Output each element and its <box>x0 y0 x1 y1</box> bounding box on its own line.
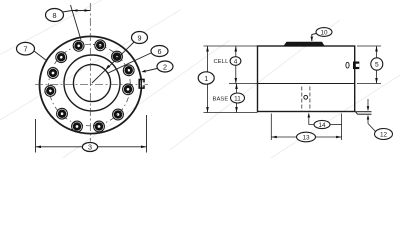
right extension line mid <box>357 83 381 85</box>
bolt hole at 315deg <box>113 109 124 120</box>
balloon 10 with leader to boss <box>311 28 333 42</box>
bottom diameter dimension extension line right <box>146 115 148 153</box>
svg-text:1: 1 <box>204 74 208 83</box>
balloon 8 <box>46 9 73 22</box>
svg-text:4: 4 <box>234 58 238 65</box>
dimension 14 leader with up arrow <box>308 113 315 125</box>
balloon 5 <box>371 58 383 70</box>
flange outer circle <box>40 36 142 133</box>
bolt hole at 105deg <box>73 40 84 51</box>
tab thickness dimension arrows <box>367 99 370 124</box>
bolt circle centerline <box>49 44 131 126</box>
svg-text:3: 3 <box>88 143 92 152</box>
bolt hole at 195deg <box>45 86 56 97</box>
bolt hole at 45deg <box>112 51 123 62</box>
right cell dimension line <box>375 46 378 84</box>
mid extension line left side <box>229 83 258 85</box>
balloon 7 <box>17 42 47 60</box>
bolt hole at 75deg <box>95 40 106 51</box>
svg-text:6: 6 <box>158 47 162 56</box>
svg-text:9: 9 <box>138 33 142 42</box>
top boss plate <box>284 42 325 46</box>
side port ellipse <box>346 62 349 68</box>
bolt hole at 135deg <box>56 52 67 63</box>
svg-text:10: 10 <box>320 29 328 36</box>
side port on right edge <box>353 62 359 70</box>
bottom extension line left side <box>204 112 258 114</box>
bottom thin tab on side view <box>356 112 372 115</box>
bolt hole at 15deg <box>123 65 134 76</box>
cell height dimension line <box>235 46 238 84</box>
bolt hole at 345deg <box>123 84 134 95</box>
balloon 6 <box>109 46 169 73</box>
svg-text:CELL: CELL <box>214 59 230 65</box>
svg-text:7: 7 <box>24 45 28 54</box>
bore inner circle <box>73 64 110 101</box>
dimension 13 line <box>271 136 341 139</box>
right extension line top <box>357 45 381 47</box>
balloon 11 <box>231 93 245 103</box>
side view body outline <box>258 46 355 112</box>
hidden hole dashed line right <box>309 87 311 112</box>
svg-text:8: 8 <box>53 11 57 20</box>
base height dimension line <box>235 84 238 113</box>
bore outer circle <box>64 55 120 111</box>
angular dimension line for balloon 8 <box>72 9 90 11</box>
balloon 14 <box>314 120 342 128</box>
bolt hole at 225deg <box>57 108 68 119</box>
cell/base split line <box>258 83 355 85</box>
bolt hole at 165deg <box>48 68 59 79</box>
balloon 13 <box>297 132 316 142</box>
balloon 4 <box>230 57 241 66</box>
svg-text:BASE: BASE <box>213 97 229 103</box>
overall height dimension line <box>206 46 209 113</box>
bottom diameter dimension extension line left <box>35 119 37 153</box>
balloon 3 <box>82 143 97 152</box>
small hole circle in side view <box>304 95 308 99</box>
hidden hole dashed line left <box>301 87 303 112</box>
svg-text:14: 14 <box>318 122 326 129</box>
balloon 1 <box>198 72 214 84</box>
bottom diameter dimension line <box>36 146 147 149</box>
top extension line left side <box>204 45 258 47</box>
svg-text:11: 11 <box>234 95 241 102</box>
balloon 12 with leader <box>368 124 393 140</box>
balloon 2 <box>141 61 173 72</box>
svg-text:5: 5 <box>375 62 379 69</box>
horizontal centerline <box>35 83 149 85</box>
angled extension line through 105deg hole <box>71 5 82 40</box>
svg-text:2: 2 <box>163 62 167 71</box>
bottom extension line left for dim 13 <box>270 114 272 141</box>
svg-text:12: 12 <box>380 131 388 138</box>
svg-text:13: 13 <box>302 134 310 141</box>
bolt hole at 285deg <box>94 121 105 132</box>
vertical centerline <box>89 3 91 142</box>
connector block on flange front <box>139 79 145 88</box>
bottom extension line right for dim 13 <box>341 114 343 141</box>
balloon 9 with leader to bore center <box>92 32 148 84</box>
bolt hole at 255deg <box>72 121 83 132</box>
